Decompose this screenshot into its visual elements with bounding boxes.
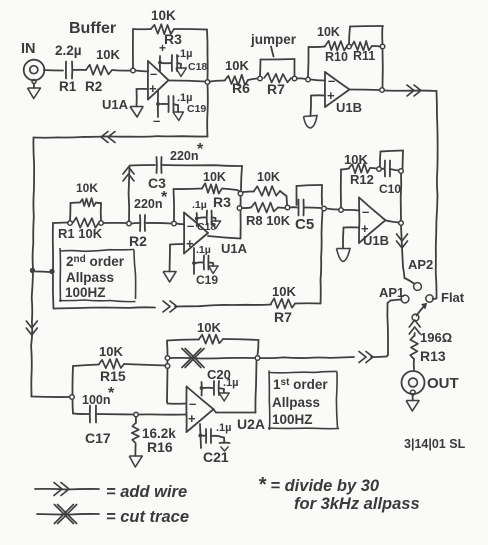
add-wire chevrons (left bus) xyxy=(26,321,37,328)
wire xyxy=(243,191,254,194)
node (R1 right) xyxy=(99,221,104,226)
capacitor C19 .1µ xyxy=(168,96,170,112)
wire xyxy=(139,413,187,415)
junction dot (V- pin) xyxy=(156,102,160,106)
svg-text:Buffer: Buffer xyxy=(69,20,116,37)
svg-text:U1A: U1A xyxy=(221,241,248,256)
svg-text:U1A: U1A xyxy=(102,97,129,112)
svg-text:10K: 10K xyxy=(96,47,120,62)
ground (input jack) xyxy=(32,80,36,84)
wire xyxy=(52,223,54,270)
svg-text:C17: C17 xyxy=(85,430,111,446)
resistor R7 10K (stage2) xyxy=(271,298,295,308)
cut-trace X xyxy=(182,349,201,368)
svg-text:*: * xyxy=(161,189,168,206)
pin V+ U1A xyxy=(159,56,161,71)
wire xyxy=(390,169,399,171)
node (U2A output node) xyxy=(255,356,260,361)
wire xyxy=(196,261,203,264)
wire xyxy=(222,189,237,191)
svg-text:+: + xyxy=(327,88,335,103)
wire (cut trace) xyxy=(170,357,255,360)
svg-text:10K: 10K xyxy=(76,181,98,195)
jumper box xyxy=(259,60,262,77)
node (U1A output) xyxy=(205,80,210,85)
wire xyxy=(340,170,342,208)
wire xyxy=(167,339,199,340)
wire xyxy=(166,361,168,364)
capacitor C19 .1µ (stage2) xyxy=(203,256,205,270)
svg-text:100HZ: 100HZ xyxy=(65,285,106,300)
ground (U1B2 + input) xyxy=(337,249,351,262)
capacitor C5 xyxy=(298,200,300,216)
svg-text:U1B: U1B xyxy=(363,233,389,248)
wire xyxy=(290,206,297,208)
svg-text:R8 10K: R8 10K xyxy=(246,213,291,228)
svg-text:R10: R10 xyxy=(325,50,348,64)
wire xyxy=(124,364,166,366)
op-amp U1B xyxy=(324,72,326,107)
pin V+ (U1A2) xyxy=(196,213,198,226)
junction dot (U1A2 V+) xyxy=(195,217,199,221)
svg-text:R2: R2 xyxy=(129,233,147,249)
node (C17-R16) xyxy=(134,412,139,417)
svg-text:= cut trace: = cut trace xyxy=(106,508,189,526)
node (R12-C10) xyxy=(377,167,382,172)
svg-text:IN: IN xyxy=(21,41,36,57)
svg-text:10K: 10K xyxy=(225,58,249,73)
jumper pointer tick xyxy=(271,47,274,57)
svg-text:.1µ: .1µ xyxy=(216,422,232,434)
svg-text:R2: R2 xyxy=(85,79,102,94)
wire xyxy=(128,166,131,221)
node (R6-R7) xyxy=(258,76,263,81)
terminal Flat xyxy=(426,295,433,302)
capacitor C17 100n xyxy=(89,406,91,423)
svg-text:AP1: AP1 xyxy=(379,285,404,300)
capacitor C18 .1µ xyxy=(171,55,173,71)
junction dot (U2A V+) xyxy=(200,386,204,390)
node (stage3 input) xyxy=(70,395,75,400)
capacitor R2 220n (stage2) xyxy=(139,215,141,231)
resistor R6 10K xyxy=(225,75,248,86)
wire xyxy=(414,333,416,336)
node (cut-trace left) xyxy=(165,356,170,361)
ground (U1A + input) xyxy=(130,107,143,118)
capacitor C3 220n xyxy=(156,157,158,173)
wire xyxy=(170,243,184,246)
svg-text:10K: 10K xyxy=(197,320,221,335)
wire xyxy=(400,174,403,221)
ground (C20) xyxy=(219,388,224,389)
wire xyxy=(136,71,149,72)
op-amp U2A xyxy=(185,387,187,433)
legend add-wire chevrons xyxy=(54,483,62,496)
resistor R3 10K (stage2) xyxy=(202,183,222,193)
svg-text:U2A: U2A xyxy=(237,416,265,432)
pin V- U1A xyxy=(157,90,159,118)
add-wire chevrons (U1B out) xyxy=(407,85,414,96)
wire xyxy=(44,69,63,72)
wire xyxy=(132,222,140,225)
svg-text:10K: 10K xyxy=(151,8,176,23)
wire xyxy=(204,387,213,389)
capacitor C21 .1µ xyxy=(205,429,207,443)
input jack IN xyxy=(24,60,45,81)
wire xyxy=(401,226,403,268)
wire xyxy=(386,221,399,223)
wire xyxy=(112,69,131,72)
box 2nd order Allpass xyxy=(61,250,135,252)
svg-text:*: * xyxy=(108,385,115,402)
add-wire chevrons (C3 branch) xyxy=(123,174,134,181)
wire (right bus down) xyxy=(437,91,438,195)
wire xyxy=(403,267,405,278)
legend cut-trace X xyxy=(54,505,73,524)
ground (output jack) xyxy=(412,395,414,401)
wire xyxy=(210,81,226,82)
wire xyxy=(214,409,217,413)
svg-text:R7: R7 xyxy=(274,309,292,325)
wire xyxy=(97,413,134,416)
op-amp U1B (stage2) xyxy=(358,198,360,244)
add-wire chevrons (R13) xyxy=(409,327,420,334)
svg-text:R15: R15 xyxy=(100,368,126,384)
capacitor C1 2.2µ xyxy=(65,62,67,79)
svg-text:.1µ: .1µ xyxy=(192,199,207,211)
wire xyxy=(240,196,242,206)
wire xyxy=(385,90,437,93)
add-wire chevrons (stage2 bottom) xyxy=(163,301,170,312)
wire xyxy=(174,28,207,31)
add-wire 10K bypass (R1) xyxy=(69,203,72,221)
svg-text:.1µ: .1µ xyxy=(223,377,239,389)
node (C5 right) xyxy=(322,206,327,211)
svg-text:10K: 10K xyxy=(99,344,123,359)
wire xyxy=(132,29,134,68)
svg-text:–: – xyxy=(187,218,194,233)
svg-text:* = divide by 30: * = divide by 30 xyxy=(258,474,380,496)
output jack OUT xyxy=(402,371,425,394)
svg-text:R3: R3 xyxy=(164,31,182,47)
add-wire chevrons (to AP1) xyxy=(359,352,366,363)
wire xyxy=(295,302,321,304)
add-wire bracket over R11 xyxy=(349,27,350,45)
svg-text:196Ω: 196Ω xyxy=(420,330,452,345)
wire xyxy=(133,28,151,30)
svg-text:R16: R16 xyxy=(147,439,173,455)
wire xyxy=(304,207,322,210)
wire xyxy=(382,49,384,88)
wire xyxy=(208,236,241,239)
ground (C18) xyxy=(177,63,181,64)
svg-text:10K: 10K xyxy=(257,170,280,184)
wire xyxy=(241,166,242,191)
resistor R10 10K xyxy=(325,41,347,51)
ground (U1B + input) xyxy=(304,116,318,129)
wire xyxy=(162,165,242,166)
wire xyxy=(311,80,326,81)
svg-text:10K: 10K xyxy=(203,170,226,184)
svg-text:+: + xyxy=(149,81,157,96)
svg-text:U1B: U1B xyxy=(336,100,362,115)
terminal AP1 xyxy=(401,295,409,303)
svg-text:C10: C10 xyxy=(379,182,401,196)
resistor 10K (R8 parallel) xyxy=(254,186,280,196)
wire xyxy=(370,167,377,170)
node (R10-R11) xyxy=(347,44,352,49)
svg-text:C5: C5 xyxy=(295,216,314,233)
junction dot (U1A2 V-) xyxy=(192,261,196,265)
box 1st order Allpass xyxy=(270,371,338,372)
resistor 10K (U2A feedback) xyxy=(199,334,223,344)
wire xyxy=(371,356,387,359)
svg-text:Flat: Flat xyxy=(441,290,465,305)
wire xyxy=(260,357,354,358)
add-wire chevrons (return wire) xyxy=(108,132,115,143)
svg-text:–: – xyxy=(150,66,157,81)
svg-text:AP2: AP2 xyxy=(408,257,433,272)
resistor R8 10K xyxy=(251,202,278,212)
wire xyxy=(104,222,127,224)
svg-text:R13: R13 xyxy=(420,348,446,364)
wire xyxy=(413,359,415,370)
ground (U1A2 + input) xyxy=(163,272,176,283)
wire xyxy=(311,94,325,96)
wire xyxy=(280,191,287,196)
ground (C21) xyxy=(211,435,218,437)
node (stage2 input corner) xyxy=(49,269,54,274)
pin V+ (U2A) xyxy=(201,382,203,396)
node (R15 right) xyxy=(165,364,170,369)
svg-text:Allpass: Allpass xyxy=(272,395,320,410)
svg-text:Allpass: Allpass xyxy=(66,270,114,285)
wire xyxy=(278,207,285,210)
wire xyxy=(166,369,169,403)
wire xyxy=(177,223,185,226)
svg-text:jumper: jumper xyxy=(250,32,297,47)
svg-text:C18: C18 xyxy=(197,221,216,233)
wire xyxy=(130,164,156,167)
wire (left bus lower) xyxy=(31,274,33,395)
svg-text:+: + xyxy=(159,41,166,55)
node (U1B2 output) xyxy=(399,221,404,226)
terminal AP2 xyxy=(414,283,422,291)
add-wire bracket over C10 xyxy=(379,152,382,167)
add-wire chevrons (to AP2) xyxy=(397,234,408,241)
node (C10 right) xyxy=(399,169,404,174)
wire xyxy=(160,103,168,105)
wire xyxy=(137,88,149,90)
wire xyxy=(169,80,206,81)
svg-text:100HZ: 100HZ xyxy=(272,412,313,427)
ground (C18 stage2) xyxy=(212,217,216,220)
legend cut-trace line xyxy=(37,513,99,516)
node (R7 right) xyxy=(292,76,297,81)
resistor R3 10K xyxy=(151,24,174,34)
wire xyxy=(297,77,306,80)
wire (top return) xyxy=(206,85,209,137)
junction dot (V+ pin) xyxy=(158,61,162,65)
svg-text:100n: 100n xyxy=(82,393,111,407)
svg-text:220n: 220n xyxy=(134,197,163,211)
wire xyxy=(71,366,74,395)
svg-text:C19: C19 xyxy=(187,103,206,115)
node (R1 left) xyxy=(68,221,73,226)
svg-text:R1: R1 xyxy=(59,79,77,94)
wire xyxy=(173,189,176,221)
add-wire bracket over C5 xyxy=(296,186,298,205)
wire xyxy=(175,305,271,307)
pin V- (U1A2) xyxy=(193,248,195,274)
ground (R16) xyxy=(134,444,136,456)
wire xyxy=(72,400,75,414)
node (R8-C5) xyxy=(285,205,290,210)
wire xyxy=(203,435,206,437)
svg-text:OUT: OUT xyxy=(427,375,459,392)
capacitor C10 xyxy=(384,161,386,177)
node (U1B output) xyxy=(380,88,385,93)
node (buffer input) xyxy=(131,68,136,73)
svg-text:R6: R6 xyxy=(232,80,250,96)
svg-text:.1µ: .1µ xyxy=(177,48,193,60)
wire xyxy=(30,394,32,397)
svg-text:C19: C19 xyxy=(196,273,218,287)
wire xyxy=(248,79,258,81)
svg-text:–: – xyxy=(362,204,369,219)
wire xyxy=(166,342,169,356)
op-amp U1A xyxy=(147,61,149,100)
switch wiper xyxy=(412,314,419,321)
resistor R13 196ohm xyxy=(410,336,418,359)
node (left bus tap) xyxy=(30,268,35,273)
svg-text:R1 10K: R1 10K xyxy=(58,226,103,241)
ground (C19 stage2) xyxy=(209,262,214,265)
wire xyxy=(52,275,55,309)
resistor R11 10K xyxy=(352,41,373,51)
wire xyxy=(73,69,86,71)
svg-text:*: * xyxy=(197,141,204,158)
svg-text:10K: 10K xyxy=(272,284,296,299)
svg-text:+: + xyxy=(186,236,194,251)
svg-text:3|14|01 SL: 3|14|01 SL xyxy=(404,437,466,451)
node (U1A2 input) xyxy=(172,221,177,226)
wire xyxy=(372,45,381,48)
wire xyxy=(344,209,360,212)
wire xyxy=(433,298,437,301)
op-amp U1A (stage2) xyxy=(183,213,185,254)
svg-text:2.2µ: 2.2µ xyxy=(55,43,82,58)
wire xyxy=(381,26,383,44)
wire xyxy=(350,89,380,92)
svg-text:–: – xyxy=(328,73,335,88)
svg-text:10K: 10K xyxy=(317,25,340,39)
node (U1B2 input) xyxy=(339,208,344,213)
capacitor C18 .1µ (stage2) xyxy=(206,211,208,225)
wire xyxy=(344,226,360,228)
svg-text:R11: R11 xyxy=(353,49,375,63)
ground (C19) xyxy=(174,104,179,105)
svg-text:C18: C18 xyxy=(188,61,207,73)
wire xyxy=(36,270,50,273)
svg-text:220n: 220n xyxy=(170,149,199,163)
node (U1A2 output) xyxy=(237,206,242,211)
wire xyxy=(382,168,385,171)
svg-text:R7: R7 xyxy=(267,81,285,97)
resistor R1 10K (stage2) xyxy=(73,218,99,228)
svg-text:= add wire: = add wire xyxy=(106,483,187,501)
wire xyxy=(199,216,207,219)
svg-text:.1µ: .1µ xyxy=(196,244,211,256)
wire xyxy=(54,307,156,308)
svg-text:+: + xyxy=(188,411,196,426)
wire xyxy=(327,209,339,210)
resistor R15 10K xyxy=(99,359,124,369)
pin V- (U2A) xyxy=(200,424,201,448)
node (feedback top) xyxy=(238,191,243,196)
resistor R16 16.2k xyxy=(135,417,137,423)
svg-text:–: – xyxy=(153,113,160,128)
wire xyxy=(242,207,251,210)
svg-text:R3: R3 xyxy=(213,194,231,210)
legend add-wire line xyxy=(35,488,99,491)
node (U1B inverting node) xyxy=(306,77,311,82)
svg-text:R12: R12 xyxy=(350,172,374,187)
wire xyxy=(162,62,172,64)
resistor R2 10K xyxy=(86,65,112,75)
wire (left bus) xyxy=(33,138,35,270)
svg-text:for 3kHz allpass: for 3kHz allpass xyxy=(294,495,420,513)
wire xyxy=(307,47,310,77)
node (R11 right) xyxy=(380,44,385,49)
svg-text:10K: 10K xyxy=(344,152,368,167)
resistor R12 10K xyxy=(349,164,370,174)
resistor R7 10K (jumpered) xyxy=(264,73,291,83)
svg-text:–: – xyxy=(189,396,196,411)
junction dot (U2A V-) xyxy=(198,434,202,438)
capacitor C20 .1µ xyxy=(213,381,215,395)
wire xyxy=(223,339,259,340)
node (C3 tap) xyxy=(127,221,132,226)
wire xyxy=(146,222,172,225)
